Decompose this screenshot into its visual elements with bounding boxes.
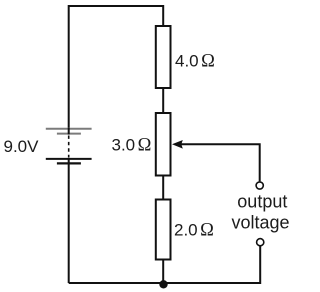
wire: R3 to bottom rail (162, 260, 164, 285)
svg-text:2.0Ω: 2.0Ω (174, 220, 214, 240)
svg-text:4.0Ω: 4.0Ω (175, 51, 215, 71)
battery bottom stub (68, 158, 70, 165)
battery bottom cell short plate (57, 162, 81, 164)
potentiometer wiper arrow (172, 140, 260, 181)
resistor R2 3.0 ohm (potentiometer track) (156, 113, 171, 176)
svg-text:voltage: voltage (232, 212, 290, 232)
wire: left wire lower (68, 164, 70, 284)
resistor R1 4.0 ohm (156, 26, 171, 88)
resistor R3 2.0 ohm (156, 200, 171, 260)
svg-text:output: output (237, 191, 287, 211)
battery top cell long plate (46, 128, 92, 130)
wire: R1 to R2 (162, 88, 164, 114)
battery inter-plate stub (68, 128, 70, 135)
terminal: upper output circle (256, 182, 263, 189)
wire: top-left loop (left wire + top wire + drop to R1) (69, 6, 164, 129)
battery top cell short plate (57, 133, 81, 135)
battery B1 (9.0V) (46, 128, 92, 165)
svg-text:3.0Ω: 3.0Ω (112, 136, 152, 156)
battery dashed cell-continuation line (68, 136, 70, 158)
battery bottom cell long plate (46, 158, 92, 160)
wire: lower terminal to bottom rail (69, 246, 261, 283)
junction node dot (159, 280, 167, 288)
wire: R2 to R3 (162, 176, 164, 201)
svg-text:9.0V: 9.0V (4, 137, 40, 156)
terminal: lower output circle (257, 239, 264, 246)
